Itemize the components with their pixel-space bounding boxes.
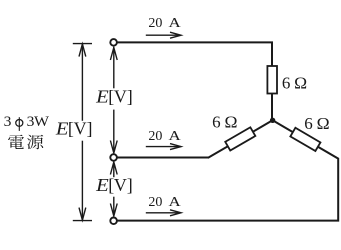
svg-text:6: 6 [304, 114, 313, 133]
svg-text:6: 6 [212, 112, 221, 131]
svg-text:E[V]: E[V] [95, 175, 133, 195]
svg-text:20: 20 [148, 129, 162, 144]
svg-text:20: 20 [148, 195, 162, 210]
svg-text:3: 3 [4, 114, 12, 130]
svg-text:20: 20 [148, 16, 162, 31]
svg-text:A: A [169, 129, 182, 144]
svg-text:A: A [169, 195, 182, 210]
svg-text:Ω: Ω [317, 114, 330, 133]
svg-text:6: 6 [282, 73, 291, 92]
svg-text:Ω: Ω [225, 112, 238, 131]
svg-text:A: A [169, 16, 182, 31]
svg-text:E[V]: E[V] [55, 119, 93, 139]
svg-text:Ω: Ω [294, 73, 307, 92]
svg-text:W: W [34, 114, 50, 130]
svg-text:E[V]: E[V] [95, 86, 133, 106]
